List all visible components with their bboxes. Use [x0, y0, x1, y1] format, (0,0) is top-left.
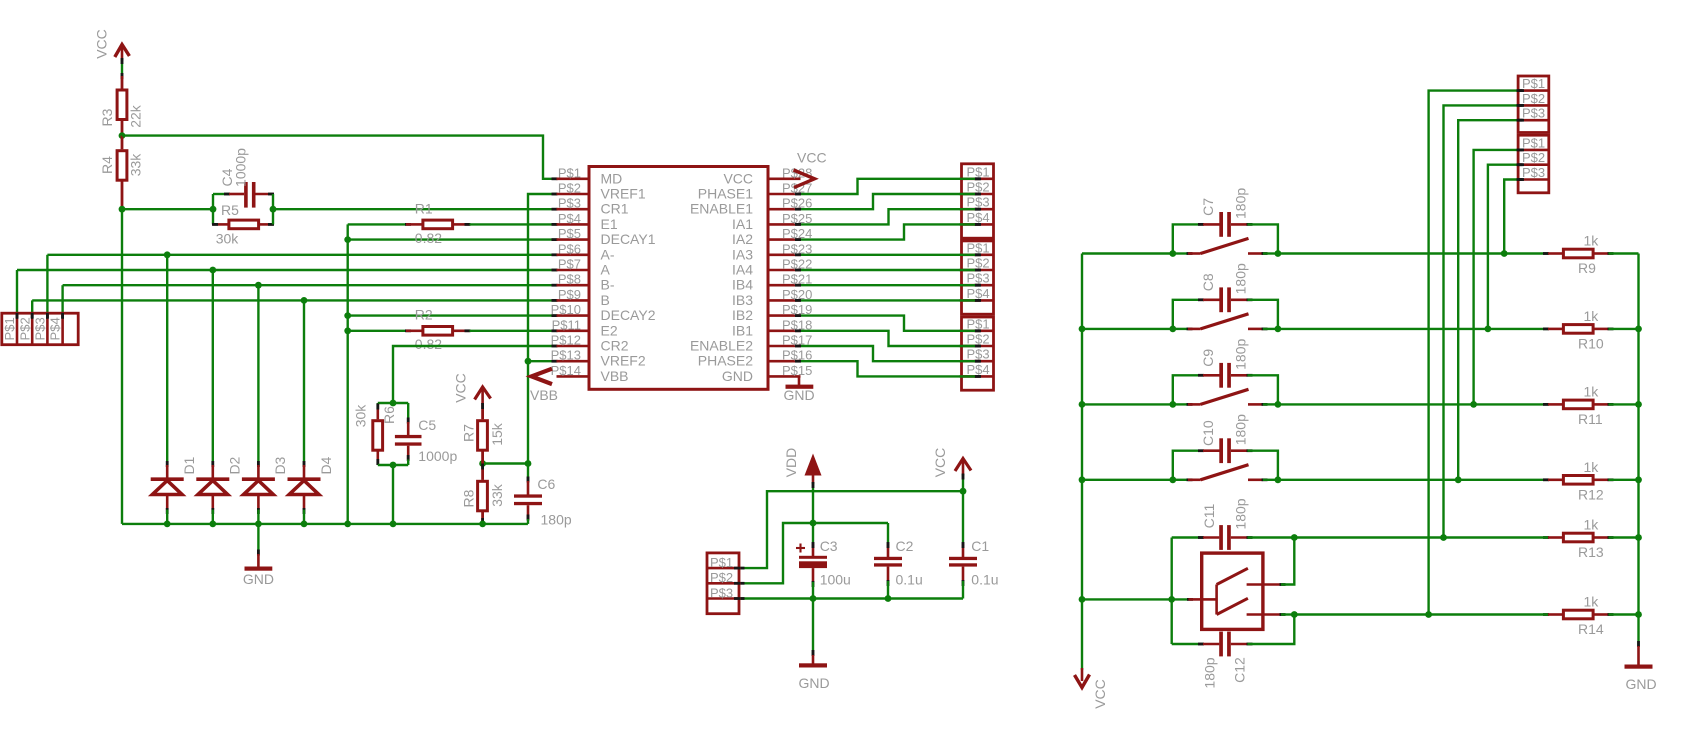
- junction switch row left: [1169, 401, 1176, 408]
- svg-text:B: B: [601, 292, 610, 308]
- svg-text:P$13: P$13: [551, 348, 581, 363]
- capacitor C6 180p: [514, 464, 572, 528]
- junction switch row right: [1275, 401, 1282, 408]
- diode D1: [151, 255, 197, 524]
- svg-text:P$1: P$1: [1522, 135, 1545, 150]
- svg-text:VREF2: VREF2: [601, 353, 646, 369]
- junction row: [1501, 250, 1508, 257]
- resistor R9 1k: [1543, 233, 1639, 277]
- diode D2: [196, 270, 242, 524]
- svg-text:1k: 1k: [1584, 308, 1600, 324]
- connector J5 (3-pin power): [707, 553, 740, 614]
- svg-text:DECAY2: DECAY2: [601, 307, 656, 323]
- capacitor C5 1000p: [395, 403, 458, 465]
- svg-text:VCC: VCC: [453, 373, 469, 403]
- wire net VDD vertical: [812, 482, 815, 544]
- resistor R5 30k: [212, 202, 274, 247]
- wire left rail to switch row 4: [1082, 479, 1173, 481]
- capacitor C2 0.1u: [874, 523, 923, 599]
- junction common row riser: [1168, 596, 1175, 603]
- capacitor C9 180p: [1173, 339, 1278, 405]
- junction right rail: [1635, 534, 1642, 541]
- junction GND rail C2: [885, 595, 892, 602]
- junction R6/C5 top: [390, 400, 397, 407]
- svg-text:P$2: P$2: [967, 332, 990, 347]
- svg-text:VCC: VCC: [1092, 679, 1108, 709]
- svg-text:B-: B-: [601, 277, 615, 293]
- wire R6/C5 top rail: [378, 402, 408, 404]
- wire row R13: [1294, 536, 1548, 538]
- svg-text:IB4: IB4: [732, 277, 753, 293]
- junction VREF-C6 node: [525, 460, 532, 467]
- svg-text:1k: 1k: [1584, 517, 1600, 533]
- svg-text:P$4: P$4: [558, 211, 581, 226]
- junction row B / D4: [301, 297, 308, 304]
- junction switch row left: [1169, 326, 1176, 333]
- svg-text:P$4: P$4: [967, 286, 990, 301]
- svg-text:C9: C9: [1200, 349, 1216, 367]
- svg-text:R7: R7: [461, 424, 477, 442]
- resistor R8 33k: [461, 464, 505, 525]
- svg-text:P$2: P$2: [17, 317, 32, 340]
- wire row to R10: [1278, 328, 1548, 330]
- junction bus D1: [164, 521, 171, 528]
- power VCC symbol (arrow down, left rail): [1075, 668, 1109, 709]
- svg-text:R6: R6: [381, 406, 397, 424]
- wire net MD (R3 junction to pin P\$1): [122, 136, 558, 181]
- svg-text:P$15: P$15: [782, 363, 812, 378]
- wire net GND rail (P\$3): [739, 597, 964, 600]
- junction row B- / D3: [255, 282, 262, 289]
- switch S3: [1173, 389, 1278, 406]
- junction left rail: [1079, 401, 1086, 408]
- wire net A- (P\$6 row): [46, 253, 558, 318]
- junction right rail: [1635, 401, 1642, 408]
- junction bus D3: [255, 521, 262, 528]
- junction R3-R4 node: [119, 132, 126, 139]
- svg-text:P$11: P$11: [552, 317, 581, 332]
- connector J2 (4-pin): [960, 164, 994, 238]
- svg-text:P$3: P$3: [967, 195, 990, 210]
- svg-text:C5: C5: [418, 417, 436, 433]
- wire net DECAY2 (pin P\$10): [348, 314, 558, 317]
- wire connector pin to row (x=1443.5): [1444, 104, 1523, 538]
- svg-text:C7: C7: [1200, 198, 1216, 216]
- svg-text:180p: 180p: [1233, 188, 1249, 219]
- junction row R14 left: [1291, 611, 1298, 618]
- ground GND (pin P\$15): [783, 376, 814, 403]
- svg-text:33k: 33k: [489, 483, 505, 507]
- resistor R13 1k: [1543, 517, 1639, 561]
- svg-text:VDD: VDD: [783, 448, 799, 478]
- svg-text:GND: GND: [243, 571, 274, 587]
- junction switch row left: [1169, 250, 1176, 257]
- svg-text:P$1: P$1: [1522, 76, 1545, 91]
- svg-text:1k: 1k: [1584, 233, 1600, 249]
- junction switch row right: [1275, 326, 1282, 333]
- svg-text:P$4: P$4: [967, 362, 990, 377]
- svg-text:C11: C11: [1201, 503, 1217, 528]
- svg-text:IA3: IA3: [732, 246, 753, 262]
- junction left rail switch row: [1079, 596, 1086, 603]
- svg-text:VCC: VCC: [94, 29, 110, 59]
- junction switch row left: [1169, 476, 1176, 483]
- svg-text:GND: GND: [722, 368, 753, 384]
- svg-text:R8: R8: [461, 489, 477, 507]
- resistor R3 22k: [99, 76, 144, 136]
- svg-text:D2: D2: [227, 456, 243, 474]
- capacitor C10 180p: [1173, 414, 1278, 480]
- power VCC symbol (top left): [94, 29, 130, 60]
- resistor R6 30k: [353, 403, 398, 465]
- junction E2/R2: [344, 327, 351, 334]
- node R5/C4 left: [210, 194, 217, 224]
- svg-text:P$2: P$2: [710, 570, 733, 585]
- svg-text:C3: C3: [820, 538, 838, 554]
- svg-text:IB2: IB2: [732, 307, 753, 323]
- wire R6/C5 to GND bus: [392, 465, 394, 524]
- wire pin P\$16 to connector: [795, 360, 981, 378]
- wire connector pin to row (x=1428.6): [1429, 89, 1523, 614]
- junction left rail: [1079, 476, 1086, 483]
- junction DECAY2: [344, 312, 351, 319]
- svg-text:D1: D1: [181, 456, 197, 474]
- svg-text:22k: 22k: [128, 104, 144, 128]
- capacitor C4 1000p: [213, 148, 274, 208]
- wire upper throw to row R13: [1281, 538, 1294, 585]
- wire row R14: [1294, 613, 1548, 615]
- resistor R7 15k: [461, 403, 505, 464]
- connector J6 (3-pin): [1518, 76, 1549, 133]
- svg-text:P$1: P$1: [967, 164, 990, 179]
- svg-text:P$3: P$3: [710, 585, 733, 600]
- junction left rail: [1079, 326, 1086, 333]
- power VCC symbol (above R7): [453, 373, 491, 404]
- svg-text:P$5: P$5: [558, 226, 581, 241]
- wire row to R12: [1278, 479, 1548, 481]
- svg-text:R3: R3: [99, 108, 115, 126]
- svg-text:R5: R5: [221, 202, 239, 218]
- junction row R13 left: [1291, 534, 1298, 541]
- svg-text:180p: 180p: [1202, 657, 1218, 688]
- wire GND bus: [122, 523, 528, 525]
- svg-text:R2: R2: [415, 307, 433, 323]
- svg-text:P$3: P$3: [1522, 106, 1545, 121]
- svg-text:IA1: IA1: [732, 216, 753, 232]
- wire pin P\$17 to connector: [795, 345, 981, 363]
- wire net DECAY1 (pin P\$5): [348, 238, 558, 241]
- ground GND (bottom center): [798, 599, 829, 692]
- svg-text:C8: C8: [1200, 273, 1216, 291]
- junction R4 bottom node: [119, 206, 126, 213]
- svg-text:P$6: P$6: [558, 241, 581, 256]
- wire pin P\$25 to connector: [795, 208, 981, 226]
- resistor R1 0.82: [348, 200, 558, 246]
- wire pin P\$18 to connector: [795, 329, 981, 347]
- junction row: [1470, 401, 1477, 408]
- connector J4 (4-pin): [960, 316, 994, 390]
- wire R6/C5 bottom rail: [378, 464, 408, 466]
- svg-text:0.82: 0.82: [415, 230, 442, 246]
- svg-text:P$4: P$4: [48, 317, 63, 340]
- junction VDD / C2 rail: [810, 520, 817, 527]
- svg-text:R10: R10: [1578, 335, 1604, 351]
- svg-text:VCC: VCC: [932, 448, 948, 478]
- wire net VDD rail (P\$2): [739, 523, 889, 585]
- wire C11/C12 left riser: [1170, 538, 1172, 645]
- svg-text:E1: E1: [601, 216, 618, 232]
- wire connector pin to row (x=1487.9): [1488, 163, 1523, 329]
- wire connector pin to row (x=1473.6): [1474, 149, 1523, 405]
- svg-text:180p: 180p: [1233, 339, 1249, 370]
- svg-text:E2: E2: [601, 322, 618, 338]
- svg-text:PHASE1: PHASE1: [698, 186, 753, 202]
- svg-text:C12: C12: [1232, 657, 1248, 683]
- svg-text:P$14: P$14: [551, 363, 581, 378]
- svg-text:1k: 1k: [1584, 459, 1600, 475]
- wire lower throw row R14: [1281, 613, 1294, 615]
- junction row: [1455, 476, 1462, 483]
- junction VREF at P\$13: [525, 358, 532, 365]
- svg-text:100u: 100u: [820, 572, 851, 588]
- svg-text:P$1: P$1: [967, 316, 990, 331]
- wire net VCC vertical to C1: [962, 474, 965, 544]
- svg-text:ENABLE1: ENABLE1: [690, 201, 753, 217]
- resistor R10 1k: [1543, 308, 1639, 352]
- wire pin P\$27 to connector: [795, 177, 981, 195]
- svg-text:GND: GND: [1625, 676, 1656, 692]
- op-amp U1 stepper driver IC: [551, 165, 813, 389]
- wire pin P\$22 to connector: [795, 269, 981, 272]
- wire GND right rail: [1637, 254, 1639, 647]
- capacitor C12 180p: [1172, 615, 1295, 689]
- power VCC symbol (pin P\$28): [794, 150, 827, 188]
- connector J1 (motor, 4-pin): [2, 313, 78, 345]
- svg-text:D4: D4: [318, 456, 334, 474]
- resistor R4 33k: [99, 136, 144, 210]
- wire pin P\$26 to connector: [795, 193, 981, 211]
- junction bus D4: [301, 521, 308, 528]
- switch S1: [1173, 238, 1278, 255]
- junction row: [1485, 326, 1492, 333]
- junction right rail: [1635, 476, 1642, 483]
- svg-text:A: A: [601, 262, 611, 278]
- wire VREF to R7/R8 node: [483, 462, 528, 464]
- svg-text:P$1: P$1: [710, 555, 733, 570]
- svg-text:GND: GND: [783, 387, 814, 403]
- junction right rail: [1635, 611, 1642, 618]
- svg-text:ENABLE2: ENABLE2: [690, 338, 753, 354]
- svg-text:PHASE2: PHASE2: [698, 353, 753, 369]
- capacitor C3 100u (polarized): [796, 538, 851, 599]
- junction R6/C5 bottom: [390, 462, 397, 469]
- svg-text:1000p: 1000p: [232, 148, 248, 187]
- svg-text:P$4: P$4: [967, 210, 990, 225]
- diode D3: [242, 285, 288, 524]
- svg-text:P$1: P$1: [558, 165, 581, 180]
- svg-text:P$3: P$3: [967, 347, 990, 362]
- junction GND rail C3: [810, 595, 817, 602]
- switch S4: [1173, 465, 1278, 481]
- wire net CR1 (to pin P\$3): [273, 208, 558, 211]
- junction bus D2: [209, 521, 216, 528]
- connector J7 (3-pin): [1518, 135, 1549, 193]
- junction row A / D2: [209, 267, 216, 274]
- svg-text:A-: A-: [601, 246, 615, 262]
- svg-text:DECAY1: DECAY1: [601, 231, 656, 247]
- svg-text:P$1: P$1: [967, 240, 990, 255]
- svg-text:180p: 180p: [1233, 263, 1249, 294]
- wire VCC to R3: [121, 58, 124, 79]
- wire R4 node to R5/C4: [122, 208, 213, 210]
- svg-text:P$12: P$12: [551, 333, 581, 348]
- svg-text:VCC: VCC: [723, 170, 753, 186]
- svg-text:R12: R12: [1578, 486, 1604, 502]
- wire net VCC rail (P\$1): [739, 491, 964, 569]
- svg-text:P$2: P$2: [1522, 91, 1545, 106]
- wire left rail to switch row 1: [1082, 252, 1173, 254]
- svg-text:IA2: IA2: [732, 231, 753, 247]
- wire pin P\$24 to connector: [795, 223, 981, 241]
- resistor R11 1k: [1543, 383, 1639, 427]
- wire net VREF (pin P\$2 down to divider): [528, 193, 558, 464]
- svg-text:R14: R14: [1578, 621, 1604, 637]
- svg-text:P$7: P$7: [558, 257, 581, 272]
- svg-text:VBB: VBB: [530, 387, 558, 403]
- node R5/C4 right: [270, 194, 277, 224]
- ground GND (right rail): [1625, 641, 1657, 692]
- svg-text:33k: 33k: [128, 153, 144, 177]
- junction row: [1425, 611, 1432, 618]
- capacitor C7 180p: [1173, 188, 1278, 254]
- svg-text:P$9: P$9: [558, 287, 581, 302]
- svg-text:0.1u: 0.1u: [896, 572, 923, 588]
- wire switch common row: [1082, 598, 1202, 601]
- svg-text:D3: D3: [272, 456, 288, 474]
- svg-text:R1: R1: [415, 200, 433, 216]
- junction row A- / D1: [164, 251, 171, 258]
- svg-text:VCC: VCC: [797, 150, 827, 166]
- svg-text:P$3: P$3: [967, 271, 990, 286]
- svg-text:P$2: P$2: [967, 256, 990, 271]
- svg-text:180p: 180p: [1233, 498, 1249, 529]
- svg-text:R13: R13: [1578, 544, 1604, 560]
- svg-text:IA4: IA4: [732, 262, 753, 278]
- capacitor C8 180p: [1173, 263, 1278, 329]
- svg-text:C1: C1: [971, 538, 989, 554]
- wire net CR2 (pin P\$12 to R6/C5): [393, 345, 558, 403]
- wire pin P\$21 to connector: [795, 284, 981, 287]
- resistor R2 0.82: [348, 307, 558, 353]
- svg-text:P$3: P$3: [1522, 165, 1545, 180]
- svg-text:P$2: P$2: [558, 181, 581, 196]
- wire connector pin to row (x=1504.2): [1504, 178, 1522, 253]
- switch S5 (DPST block): [1202, 553, 1286, 629]
- junction VCC / P1 rail: [960, 488, 967, 495]
- svg-text:P$3: P$3: [32, 317, 47, 340]
- diode D4: [288, 300, 334, 524]
- svg-text:180p: 180p: [541, 511, 572, 527]
- svg-text:15k: 15k: [489, 422, 505, 446]
- junction bus R6/C5: [390, 521, 397, 528]
- wire VCC left rail: [1081, 254, 1083, 671]
- junction row: [1440, 534, 1447, 541]
- junction DECAY1: [344, 236, 351, 243]
- svg-text:30k: 30k: [353, 404, 369, 428]
- svg-text:1k: 1k: [1584, 594, 1600, 610]
- junction bus sense: [344, 521, 351, 528]
- resistor R14 1k: [1543, 594, 1639, 638]
- svg-text:MD: MD: [601, 170, 623, 186]
- svg-text:VBB: VBB: [601, 368, 629, 384]
- power VBB symbol (pin P\$14): [530, 369, 558, 404]
- svg-text:180p: 180p: [1233, 414, 1249, 445]
- wire pin P\$19 to connector: [795, 314, 981, 332]
- svg-text:CR1: CR1: [601, 201, 629, 217]
- wire net A (P\$7 row): [16, 269, 558, 318]
- wire connector pin to row (x=1458.2): [1458, 119, 1522, 480]
- wire left rail to switch row 3: [1082, 403, 1173, 405]
- svg-text:P$3: P$3: [558, 196, 581, 211]
- svg-text:P$8: P$8: [558, 272, 581, 287]
- svg-text:30k: 30k: [216, 231, 240, 247]
- svg-text:CR2: CR2: [601, 338, 629, 354]
- svg-text:R9: R9: [1578, 260, 1596, 276]
- svg-text:P$10: P$10: [551, 302, 581, 317]
- svg-text:C2: C2: [896, 538, 914, 554]
- capacitor C11 180p: [1172, 498, 1295, 550]
- svg-text:C10: C10: [1200, 420, 1216, 446]
- svg-text:IB3: IB3: [732, 292, 753, 308]
- wire row to R9: [1278, 252, 1548, 254]
- svg-text:1k: 1k: [1584, 383, 1600, 399]
- junction switch row right: [1275, 476, 1282, 483]
- svg-text:R4: R4: [99, 156, 115, 174]
- wire net sense vertical: [347, 224, 349, 524]
- power VDD symbol: [783, 448, 821, 484]
- wire net B- (P\$8 row): [61, 284, 557, 318]
- svg-text:IB1: IB1: [732, 322, 753, 338]
- wire row to R11: [1278, 403, 1548, 405]
- svg-text:GND: GND: [798, 675, 829, 691]
- wire left rail to switch row 2: [1082, 328, 1173, 330]
- junction R7/R8 node: [479, 460, 486, 467]
- junction right rail: [1635, 326, 1642, 333]
- wire net VREF pin P\$13: [528, 360, 558, 363]
- wire net B (P\$9 row): [31, 299, 558, 318]
- connector J3 (4-pin): [960, 240, 994, 314]
- power VCC symbol (bottom center): [932, 448, 971, 478]
- wire pin P\$23 to connector: [795, 253, 981, 256]
- capacitor C1 0.1u: [949, 538, 999, 599]
- svg-text:0.82: 0.82: [415, 336, 442, 352]
- switch S2: [1173, 314, 1278, 331]
- wire left vertical (R4 node down): [121, 209, 123, 524]
- junction switch row right: [1275, 250, 1282, 257]
- svg-text:P$2: P$2: [1522, 150, 1545, 165]
- ground GND (bottom left): [243, 524, 274, 587]
- svg-text:VREF1: VREF1: [601, 186, 646, 202]
- junction bus R8: [479, 521, 486, 528]
- wire pin P\$20 to connector: [795, 299, 981, 302]
- svg-text:P$2: P$2: [967, 180, 990, 195]
- svg-text:P$1: P$1: [2, 317, 17, 340]
- svg-text:0.1u: 0.1u: [971, 572, 998, 588]
- svg-text:C6: C6: [537, 476, 555, 492]
- svg-text:R11: R11: [1578, 411, 1603, 427]
- svg-text:1000p: 1000p: [418, 448, 457, 464]
- resistor R12 1k: [1543, 459, 1639, 503]
